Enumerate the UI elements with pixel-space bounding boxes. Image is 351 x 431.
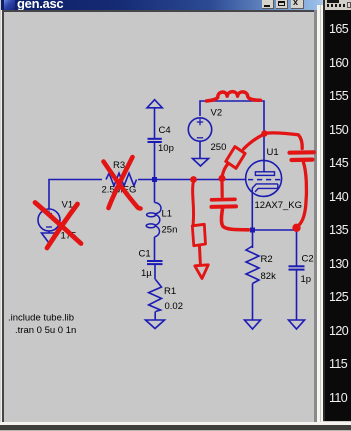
window frame left edge bbox=[0, 0, 1, 431]
red arrow chain: box symbol bbox=[192, 224, 205, 246]
junction node at cathode/rail/R2 bbox=[250, 228, 255, 233]
svg-text:250: 250 bbox=[211, 142, 227, 153]
ground below V2 bbox=[193, 159, 209, 167]
red dot on anode wire bbox=[261, 130, 267, 136]
capacitor C2 bbox=[289, 266, 305, 269]
ground below R1 bbox=[146, 320, 165, 329]
svg-text:82k: 82k bbox=[261, 271, 277, 282]
U1 grid (dashed) bbox=[248, 179, 281, 181]
svg-text:R1: R1 bbox=[164, 286, 176, 297]
svg-text:1p: 1p bbox=[301, 274, 312, 285]
red coil over B+ wire bbox=[207, 92, 261, 101]
resistor R1 bbox=[149, 280, 162, 312]
wire R2 to ground bbox=[252, 284, 254, 321]
plot window title strip with cut-off text marks bbox=[325, 0, 351, 10]
red arrow head bbox=[195, 265, 209, 279]
svg-text:.include tube.lib: .include tube.lib bbox=[8, 313, 74, 324]
svg-text:C2: C2 bbox=[302, 254, 314, 265]
plot y-axis scale labels 165..110 bbox=[325, 10, 351, 421]
U1 cathode bbox=[252, 184, 277, 193]
svg-text:V2: V2 bbox=[211, 108, 223, 119]
voltage source V1 bbox=[38, 209, 60, 233]
svg-text:R3: R3 bbox=[113, 160, 125, 171]
window1 right frame (gray then white highlight) bbox=[314, 10, 317, 422]
bottom rail wire bbox=[252, 229, 297, 231]
red annotations bbox=[35, 92, 314, 279]
plot window black plot area bbox=[325, 10, 351, 421]
triode U1 envelope bbox=[246, 160, 282, 196]
svg-text:12AX7_KG: 12AX7_KG bbox=[255, 200, 303, 211]
node top of C4 (antenna triangle) bbox=[147, 100, 162, 108]
ground below V1 bbox=[42, 233, 57, 243]
title text gen.asc bbox=[17, 0, 97, 10]
resistor R2 bbox=[246, 246, 259, 284]
svg-text:L1: L1 bbox=[162, 209, 173, 220]
svg-text:U1: U1 bbox=[267, 147, 279, 158]
wire rail to C2 bbox=[296, 230, 298, 266]
red dot on output rail bbox=[292, 224, 300, 232]
resistor R3 bbox=[106, 173, 137, 186]
close button bbox=[291, 0, 304, 9]
svg-text:10p: 10p bbox=[158, 143, 174, 154]
bottom window frame: white highlight, dark band, gray edge bbox=[0, 422, 351, 425]
svg-text:.tran 0 5u 0 1n: .tran 0 5u 0 1n bbox=[15, 325, 76, 336]
svg-text:25n: 25n bbox=[162, 225, 178, 236]
red rotated box (grid-anode) bbox=[226, 147, 245, 169]
wire V2 top to tube anode bbox=[200, 101, 264, 172]
svg-text:C4: C4 bbox=[159, 125, 171, 136]
red wire anode to output cap bbox=[265, 133, 303, 149]
wire C2 to ground bbox=[296, 270, 298, 320]
svg-text:C1: C1 bbox=[139, 249, 151, 260]
red arrow chain: wavy lead bbox=[193, 183, 194, 224]
ground below R2 bbox=[245, 320, 261, 329]
red X over V1 bbox=[35, 203, 81, 249]
red capacitor plates (grid-cathode) bbox=[212, 198, 236, 202]
red arrow chain: lower lead bbox=[198, 247, 202, 264]
wire C4 to junction bbox=[154, 142, 156, 180]
red box chain: lead to anode wire bbox=[244, 135, 264, 150]
red cap chain: lead down bbox=[220, 183, 223, 197]
red X over R3 bbox=[104, 157, 141, 209]
wire L1 to C1 bbox=[154, 237, 156, 261]
minimize button bbox=[262, 0, 274, 9]
wire junction to L1 bbox=[154, 180, 156, 203]
schematic canvas sunken border (dark top and left) bbox=[2, 10, 317, 12]
ground below C2 bbox=[289, 320, 305, 329]
wire C1 to R1 bbox=[154, 264, 156, 279]
red wire output cap down to rail bbox=[300, 163, 307, 225]
wire antenna to C4 bbox=[154, 108, 156, 139]
inductor L1 bbox=[146, 203, 161, 237]
title bar app icon bbox=[4, 0, 15, 10]
component value text labels bbox=[8, 108, 314, 337]
svg-text:1µ: 1µ bbox=[141, 268, 152, 279]
red arrow chain: dot on grid wire bbox=[190, 176, 197, 183]
title bar gen.asc bbox=[1, 0, 322, 10]
wire cathode to bottom rail bbox=[251, 193, 253, 230]
junction node at C4/R3/L1 bbox=[152, 177, 157, 182]
red box chain: lead up from grid dot bbox=[222, 164, 228, 176]
voltage source V2 bbox=[188, 118, 211, 159]
wire rail to R2 bbox=[252, 230, 254, 248]
capacitor C1 bbox=[147, 261, 163, 264]
U1 anode plate bbox=[255, 172, 274, 176]
wire R1 to ground bbox=[154, 312, 156, 321]
svg-text:0.02: 0.02 bbox=[165, 301, 184, 312]
red cap chain: dot on grid wire bbox=[218, 175, 225, 182]
wire V1 to R3 to tube grid bbox=[49, 180, 247, 210]
capacitor C4 bbox=[148, 139, 162, 142]
red output capacitor plates bbox=[290, 150, 314, 155]
svg-text:R2: R2 bbox=[261, 254, 273, 265]
plot window dark left edge bbox=[323, 0, 325, 421]
red cap chain: lead to cathode junction bbox=[221, 209, 248, 230]
maximize button bbox=[276, 0, 288, 9]
